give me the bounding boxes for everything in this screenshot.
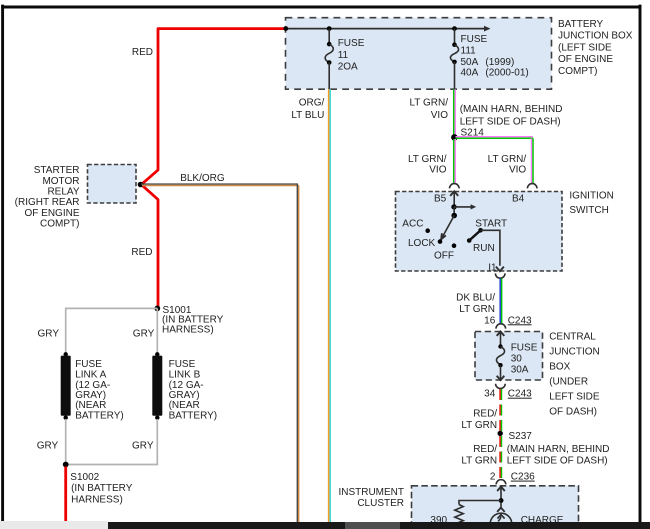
central junction box	[475, 332, 600, 418]
svg-text:ACC: ACC	[402, 218, 423, 229]
splice S1001	[154, 305, 223, 336]
svg-text:GRY: GRY	[132, 441, 154, 452]
svg-text:RUN: RUN	[473, 243, 495, 254]
splice S237	[498, 431, 610, 467]
svg-text:LOCK: LOCK	[408, 238, 436, 249]
instrument cluster entry arrow	[497, 487, 505, 501]
svg-text:FUSE: FUSE	[511, 342, 538, 353]
svg-text:(2000-01): (2000-01)	[485, 67, 528, 78]
svg-text:16: 16	[484, 315, 496, 326]
svg-text:IGNITION: IGNITION	[569, 190, 613, 201]
fusible link A	[61, 352, 124, 421]
wire LT GRN/VIO to B5	[408, 139, 455, 184]
svg-text:RELAY: RELAY	[47, 187, 79, 198]
wire DK BLU/LT GRN	[456, 278, 502, 323]
svg-text:I1: I1	[488, 262, 497, 273]
fuse 11	[325, 26, 365, 89]
svg-text:34: 34	[484, 388, 496, 399]
battery junction box	[286, 18, 633, 90]
wire bus in battery junction box	[283, 26, 490, 32]
connector pin B4	[512, 184, 537, 205]
wire LT GRN/VIO to B4	[456, 137, 534, 184]
svg-text:(IN BATTERY: (IN BATTERY	[71, 483, 133, 494]
svg-text:LT GRN: LT GRN	[461, 420, 497, 431]
svg-text:B5: B5	[434, 194, 447, 205]
svg-text:11: 11	[338, 50, 349, 61]
node in instrument cluster	[499, 498, 504, 503]
connector C243 pin 34	[484, 384, 532, 400]
svg-text:FUSE: FUSE	[461, 34, 488, 45]
fuse 111	[450, 26, 528, 89]
svg-text:OF ENGINE: OF ENGINE	[558, 54, 613, 65]
svg-text:LT GRN/: LT GRN/	[408, 154, 447, 165]
svg-text:COMPT): COMPT)	[40, 219, 79, 230]
wire GRY below link A	[37, 419, 66, 465]
connector pin B5	[434, 184, 459, 207]
ignition switch	[396, 190, 614, 271]
svg-text:LEFT SIDE OF DASH): LEFT SIDE OF DASH)	[460, 116, 561, 127]
svg-text:111: 111	[461, 45, 477, 56]
svg-text:RED: RED	[131, 247, 152, 258]
connector C236 pin 2	[490, 472, 535, 485]
wire GRY below link B	[68, 419, 157, 465]
svg-text:STARTER: STARTER	[34, 165, 80, 176]
svg-text:LT GRN: LT GRN	[459, 304, 495, 315]
svg-text:OFF: OFF	[434, 251, 454, 262]
wire RED/LT GRN upper	[461, 389, 501, 431]
svg-text:RED: RED	[132, 47, 153, 58]
wire BLK/ORG	[141, 173, 299, 523]
fuse 30	[496, 332, 537, 381]
wire RED battery feed	[131, 29, 285, 309]
svg-text:GRY: GRY	[37, 441, 59, 452]
svg-text:MOTOR: MOTOR	[42, 176, 79, 187]
wire GRY branch right	[133, 308, 158, 353]
svg-text:LT GRN/: LT GRN/	[488, 154, 527, 165]
svg-text:SWITCH: SWITCH	[569, 205, 608, 216]
svg-text:C236: C236	[511, 472, 535, 483]
starter motor relay	[15, 165, 136, 230]
resistor 390	[430, 505, 463, 527]
svg-text:30A: 30A	[511, 365, 529, 376]
svg-text:OF ENGINE: OF ENGINE	[24, 208, 79, 219]
ignition switch contacts	[402, 204, 507, 261]
svg-text:BLK/ORG: BLK/ORG	[180, 173, 225, 184]
svg-text:BOX: BOX	[549, 362, 570, 373]
svg-text:(LEFT SIDE: (LEFT SIDE	[558, 42, 612, 53]
splice S1002	[63, 462, 133, 506]
wire RED/LT GRN lower	[461, 436, 501, 479]
svg-text:BATTERY: BATTERY	[558, 19, 604, 30]
svg-text:VIO: VIO	[509, 165, 526, 176]
svg-text:INSTRUMENT: INSTRUMENT	[338, 487, 404, 498]
svg-text:LT GRN/: LT GRN/	[409, 97, 448, 108]
svg-text:COMPT): COMPT)	[558, 66, 597, 77]
svg-text:S1002: S1002	[70, 472, 99, 483]
svg-text:RED/: RED/	[473, 409, 497, 420]
splice S214	[451, 127, 484, 140]
node at starter relay	[138, 182, 144, 188]
svg-text:GRY: GRY	[133, 328, 155, 339]
svg-text:DK BLU/: DK BLU/	[456, 293, 495, 304]
wire ORG/LT BLU	[291, 89, 330, 522]
svg-text:BATTERY): BATTERY)	[75, 410, 124, 421]
svg-text:LEFT SIDE: LEFT SIDE	[549, 392, 600, 403]
instrument cluster	[338, 486, 578, 529]
svg-text:2OA: 2OA	[338, 61, 358, 72]
svg-text:HARNESS): HARNESS)	[162, 324, 214, 335]
svg-text:B4: B4	[512, 194, 525, 205]
svg-text:(MAIN HARN, BEHIND: (MAIN HARN, BEHIND	[507, 444, 610, 455]
frame	[1, 6, 641, 9]
svg-text:40A: 40A	[461, 67, 479, 78]
svg-text:FUSE: FUSE	[338, 38, 365, 49]
svg-text:START: START	[475, 219, 507, 230]
svg-text:(UNDER: (UNDER	[549, 377, 588, 388]
svg-text:BATTERY): BATTERY)	[169, 410, 218, 421]
svg-text:LEFT SIDE OF DASH): LEFT SIDE OF DASH)	[507, 455, 608, 466]
svg-text:C243: C243	[508, 315, 532, 326]
svg-text:(RIGHT REAR: (RIGHT REAR	[15, 197, 80, 208]
svg-text:S237: S237	[509, 431, 533, 442]
charge indicator	[490, 503, 564, 529]
svg-text:VIO: VIO	[431, 110, 448, 121]
svg-text:2: 2	[490, 472, 496, 483]
svg-text:GRY: GRY	[38, 328, 60, 339]
svg-text:HARNESS): HARNESS)	[71, 494, 123, 505]
svg-text:CLUSTER: CLUSTER	[357, 498, 404, 509]
wire LT GRN/VIO from fuse 111	[409, 89, 562, 136]
wire to resistor	[459, 501, 501, 505]
svg-text:30: 30	[511, 354, 523, 365]
svg-text:OF DASH): OF DASH)	[549, 407, 597, 418]
svg-text:LT GRN: LT GRN	[461, 455, 497, 466]
fusible link B	[152, 352, 217, 421]
svg-text:CENTRAL: CENTRAL	[549, 332, 596, 343]
svg-text:JUNCTION BOX: JUNCTION BOX	[558, 31, 633, 42]
svg-text:(MAIN HARN, BEHIND: (MAIN HARN, BEHIND	[460, 104, 563, 115]
connector pin I1	[495, 273, 505, 278]
wire RED to battery	[64, 467, 67, 522]
connector C243 pin 16	[484, 315, 532, 328]
svg-text:RED/: RED/	[473, 444, 497, 455]
wire START to I1	[481, 230, 504, 273]
wire GRY branch left	[38, 308, 158, 353]
svg-text:ORG/: ORG/	[299, 98, 325, 109]
svg-text:VIO: VIO	[429, 165, 446, 176]
svg-text:JUNCTION: JUNCTION	[549, 347, 600, 358]
svg-text:C243: C243	[508, 389, 532, 400]
svg-text:LT BLU: LT BLU	[291, 110, 324, 121]
